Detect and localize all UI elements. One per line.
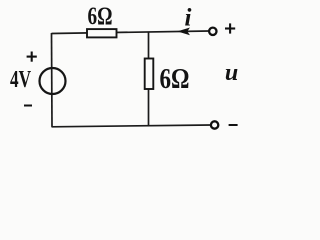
wire top (left corner to right terminal) xyxy=(52,31,210,34)
terminal top right (open circle) xyxy=(209,28,216,35)
svg-text:4V: 4V xyxy=(10,67,31,93)
wire bottom xyxy=(52,125,212,127)
svg-text:u: u xyxy=(225,60,238,86)
terminal bottom right (open circle) xyxy=(211,121,218,128)
svg-text:6Ω: 6Ω xyxy=(88,3,113,30)
wire middle branch vertical xyxy=(148,32,150,126)
current arrowhead i (pointing left) xyxy=(177,28,190,36)
resistor R2 6Ω vertical body xyxy=(145,59,154,90)
voltage source 4V (circle) xyxy=(40,68,66,94)
resistor R1 6Ω horizontal body xyxy=(87,29,117,37)
svg-text:i: i xyxy=(185,4,192,31)
plus sign source top left xyxy=(27,52,37,62)
minus sign terminal bottom right xyxy=(229,124,238,126)
svg-text:6Ω: 6Ω xyxy=(160,63,190,95)
wire left vertical xyxy=(51,33,54,127)
minus sign source bottom left xyxy=(24,105,32,107)
plus sign terminal top right xyxy=(225,23,235,33)
